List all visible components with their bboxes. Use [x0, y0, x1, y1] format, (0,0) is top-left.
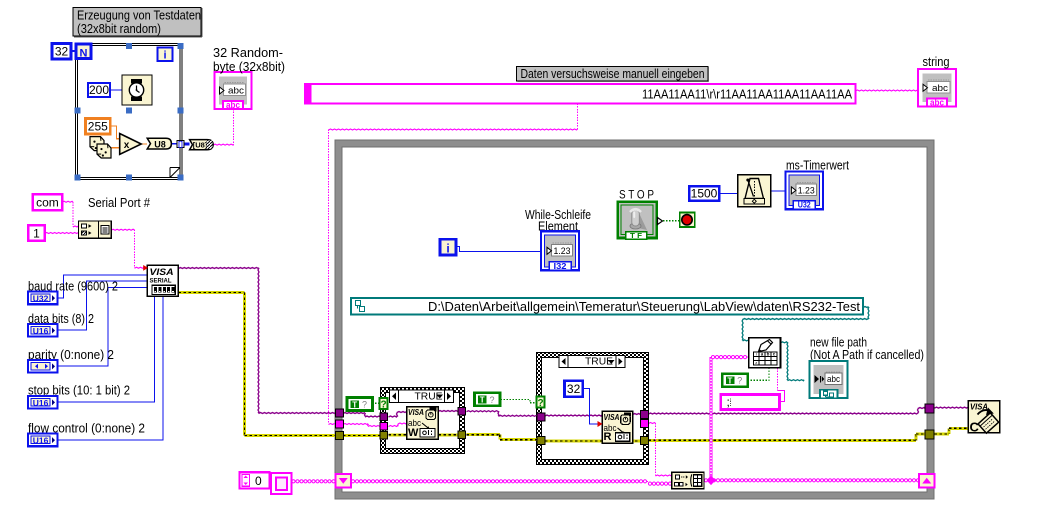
svg-text:255: 255 [88, 120, 108, 134]
svg-text:com: com [36, 196, 59, 210]
svg-text:I: I [756, 352, 757, 357]
svg-text:0: 0 [255, 474, 262, 488]
svg-text:VISA: VISA [150, 267, 174, 277]
svg-text:1: 1 [33, 226, 40, 240]
svg-text:32: 32 [55, 45, 69, 59]
svg-text:T: T [728, 376, 733, 385]
svg-text:?: ? [489, 395, 494, 405]
svg-text:T: T [480, 396, 485, 405]
svg-text:(Not A Path if cancelled): (Not A Path if cancelled) [810, 347, 924, 362]
svg-text:W: W [408, 427, 419, 439]
svg-text:?: ? [537, 398, 543, 409]
svg-text:D:\Daten\Arbeit\allgemein\Teme: D:\Daten\Arbeit\allgemein\Temeratur\Steu… [428, 299, 860, 314]
svg-text:32: 32 [567, 382, 581, 396]
svg-text:x: x [124, 140, 130, 151]
svg-text:abc: abc [226, 100, 240, 110]
svg-text:SERIAL: SERIAL [150, 279, 172, 285]
svg-text:?: ? [737, 376, 742, 386]
svg-text:11AA11AA11\r\r11AA11AA11AA11AA: 11AA11AA11\r\r11AA11AA11AA11AA11AA [642, 87, 852, 102]
svg-text:T: T [352, 400, 357, 409]
svg-text:abc: abc [932, 83, 948, 94]
svg-text:i: i [163, 50, 166, 62]
svg-text:abc: abc [930, 98, 944, 108]
svg-text:R: R [604, 431, 612, 443]
svg-text:VISA: VISA [604, 413, 620, 422]
svg-text:N: N [80, 48, 88, 60]
svg-text:?: ? [380, 400, 386, 411]
svg-text:I32: I32 [554, 261, 567, 271]
svg-text:T F: T F [630, 231, 642, 240]
svg-text:b: b [767, 352, 770, 357]
svg-text:U16: U16 [33, 326, 49, 336]
svg-text:ms-Timerwert: ms-Timerwert [786, 158, 849, 173]
svg-text:Serial Port #: Serial Port # [88, 195, 151, 210]
svg-text:i: i [446, 241, 449, 255]
svg-text:abc: abc [827, 374, 840, 385]
svg-text:1.23: 1.23 [798, 185, 815, 196]
svg-text:S T O P: S T O P [619, 188, 654, 202]
svg-text:U32: U32 [798, 200, 811, 210]
svg-text:?: ? [362, 400, 367, 410]
svg-text:1.23: 1.23 [554, 246, 571, 257]
svg-text:200: 200 [89, 83, 109, 97]
svg-text:VISA: VISA [408, 408, 424, 417]
svg-text:U8: U8 [154, 140, 166, 150]
svg-text:U32: U32 [33, 294, 49, 304]
svg-text:C: C [970, 420, 980, 435]
svg-text:[U8]: [U8] [193, 141, 208, 150]
svg-text:TRUE: TRUE [585, 355, 613, 367]
svg-text:1500: 1500 [691, 187, 718, 201]
svg-text:string: string [923, 54, 950, 69]
svg-text:U16: U16 [33, 436, 49, 446]
svg-text:z: z [755, 360, 757, 365]
svg-text:;: ; [727, 395, 730, 409]
svg-text:[]: [] [178, 141, 183, 148]
svg-text:abc: abc [228, 86, 244, 97]
svg-text:32 Random-: 32 Random- [213, 45, 283, 60]
svg-text:byte (32x8bit): byte (32x8bit) [213, 59, 285, 74]
svg-text:Daten versuchsweise manuell ei: Daten versuchsweise manuell eingeben [521, 66, 705, 81]
svg-text:U16: U16 [33, 398, 49, 408]
svg-text:(32x8bit random): (32x8bit random) [77, 21, 161, 36]
